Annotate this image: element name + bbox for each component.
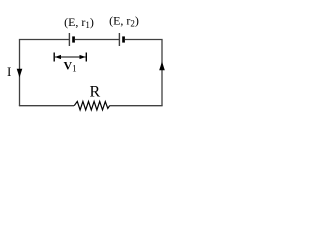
voltmeter span V1: left tick xyxy=(53,53,55,62)
voltmeter span V1: left arrowhead xyxy=(55,55,61,59)
wire: left vertical xyxy=(19,40,21,107)
current arrow on left wire (down) xyxy=(17,69,23,78)
current arrow on right wire (up) xyxy=(159,62,165,71)
battery B2 short thick plate xyxy=(122,36,125,42)
battery B1 long plate xyxy=(68,33,70,46)
voltmeter span V1: right arrowhead xyxy=(80,55,86,59)
svg-text:V1: V1 xyxy=(64,58,77,73)
voltmeter span V1: right tick xyxy=(85,53,87,62)
wire: bottom segment left xyxy=(19,105,74,107)
svg-text:I: I xyxy=(7,64,11,79)
battery B1 short thick plate xyxy=(72,36,75,42)
wire: right vertical xyxy=(161,40,163,107)
voltmeter span V1: horizontal line xyxy=(55,56,86,58)
wire: top segment middle xyxy=(75,39,119,41)
svg-text:(E, r2): (E, r2) xyxy=(109,14,139,29)
wire: bottom segment right xyxy=(110,105,163,107)
resistor R zigzag xyxy=(74,101,109,110)
svg-text:(E, r1): (E, r1) xyxy=(64,15,94,30)
wire: top segment right xyxy=(125,39,163,41)
battery B2 long plate xyxy=(118,33,120,46)
wire: top segment left xyxy=(19,39,69,41)
svg-text:R: R xyxy=(90,84,101,101)
